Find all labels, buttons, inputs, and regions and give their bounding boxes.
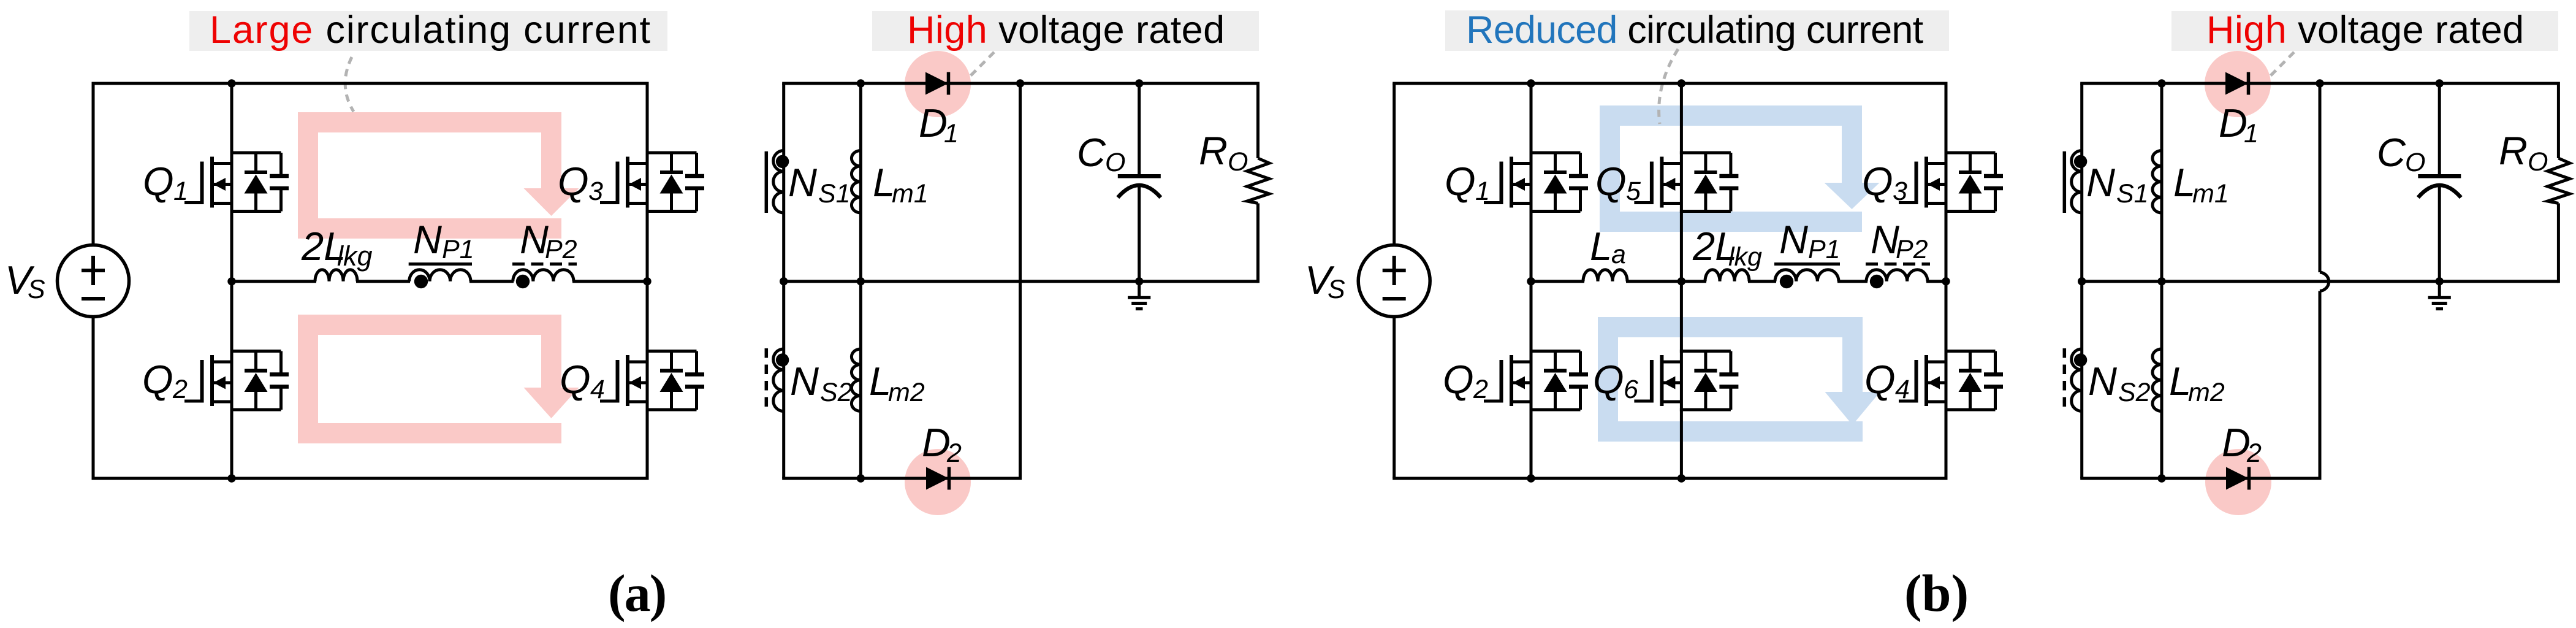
transistor Q1 (b) <box>1484 153 1588 212</box>
svg-text:NS2: NS2 <box>2088 359 2151 407</box>
svg-text:Q3: Q3 <box>558 159 603 206</box>
wire left bridge leg (b) <box>1530 83 1533 478</box>
transistor Q2 (b) <box>1484 351 1588 410</box>
polarity dot NP2 (a) <box>516 275 530 288</box>
resistor RO (a) <box>1256 82 1260 159</box>
polarity dot NP1 (a) <box>414 275 428 288</box>
transistor Q5 <box>1634 153 1738 212</box>
transistor Q3 <box>600 153 704 212</box>
wire primary mid rail segment 4 (b) <box>1748 280 1776 283</box>
wire secondary winding leg (b) <box>2080 83 2083 478</box>
wire primary mid rail segment 6 (b) <box>1926 280 1946 283</box>
highlight circle on D1 (a) <box>905 51 971 117</box>
ground symbol (a) <box>1138 281 1141 297</box>
node: bottom rail - left leg junction (a) <box>227 474 235 482</box>
winding NS2 (a) <box>773 349 784 411</box>
svg-text:Reduced circulating current: Reduced circulating current <box>1466 9 1924 52</box>
inductor La (b) <box>1583 270 1627 281</box>
wire output rail vertical with crossover hop (b) <box>2319 83 2322 272</box>
svg-text:High voltage rated: High voltage rated <box>907 9 1225 52</box>
wire Lm leg (b) <box>2160 83 2164 478</box>
svg-text:Q1: Q1 <box>143 159 188 206</box>
wire secondary bottom rail (b) <box>2080 477 2320 480</box>
transformer core bar NS2 (a) dashed <box>765 348 769 409</box>
transistor Q2 <box>184 351 289 410</box>
circulating current loop upper (b) <box>1600 105 1880 232</box>
svg-text:High voltage rated: High voltage rated <box>2206 9 2525 52</box>
node: mid rail junctions (b) <box>1527 277 1535 285</box>
wire source rail upper (b) <box>1392 83 1396 246</box>
svg-text:NS2: NS2 <box>790 359 853 407</box>
wire top rail (a) primary <box>92 82 649 85</box>
winding NS2 (b) <box>2072 349 2082 411</box>
wire primary mid rail segment 4 (a) <box>572 280 647 283</box>
circulating current loop upper (a) <box>298 112 579 239</box>
wire secondary top rail (b) <box>2080 82 2558 85</box>
svg-text:NS1: NS1 <box>2086 160 2149 209</box>
winding NP2 (a) <box>513 270 574 281</box>
node: mid rail - left leg junction (a) <box>227 277 235 285</box>
wire source rail lower (b) <box>1392 316 1396 478</box>
svg-text:NP2: NP2 <box>1871 217 1928 264</box>
annotation leader to upper loop (b) <box>1659 49 1678 124</box>
wire right bridge leg (b) <box>1945 83 1948 478</box>
svg-text:Q3: Q3 <box>1862 159 1907 206</box>
polarity dot NS2 (b) <box>2074 353 2087 366</box>
resistor RO (b) <box>2557 82 2560 159</box>
node: bottom rail junctions (b) <box>1527 474 1535 482</box>
svg-text:(a): (a) <box>608 564 666 622</box>
annotation box: High voltage rated (b) <box>2171 11 2558 51</box>
polarity dot NS2 (a) <box>776 353 789 366</box>
polarity dot NS1 (a) <box>776 155 789 168</box>
voltage source VS (b) <box>1358 245 1430 317</box>
diode D1 (b) <box>2225 72 2248 95</box>
polarity dot NP1 (b) <box>1780 275 1793 288</box>
node: mid rail - right leg junction (a) <box>643 277 651 285</box>
wire primary mid rail segment 2 (a) <box>356 280 410 283</box>
svg-text:RO: RO <box>2499 128 2548 177</box>
svg-text:Large circulating current: Large circulating current <box>210 9 652 52</box>
wire source rail upper (a) <box>92 83 95 246</box>
circulating current loop lower (a) <box>298 315 579 443</box>
node: top rail - left leg junction (a) <box>227 79 235 87</box>
wire secondary winding leg (a) <box>782 83 785 478</box>
node: secondary bottom rail junction (b) <box>2157 474 2165 482</box>
wire middle bridge leg (b) <box>1680 83 1683 478</box>
svg-text:(b): (b) <box>1904 564 1969 622</box>
svg-text:Q5: Q5 <box>1595 159 1641 206</box>
svg-text:Q4: Q4 <box>560 357 605 404</box>
wire primary mid rail segment 3 (b) <box>1681 280 1706 283</box>
transformer core bar NS1 (a) solid <box>765 151 769 213</box>
annotation leader to D1 (a) <box>967 52 994 79</box>
inductor Lm2 (a) <box>851 349 861 412</box>
winding NP1 (b) <box>1775 270 1839 281</box>
svg-text:NP2: NP2 <box>520 217 577 264</box>
svg-text:Q2: Q2 <box>142 357 188 404</box>
svg-text:Q6: Q6 <box>1593 357 1638 404</box>
transformer core bar NS2 (b) dashed <box>2063 348 2067 409</box>
wire secondary top rail (a) <box>782 82 1258 85</box>
node: top rail junctions (b) <box>1527 79 1535 87</box>
svg-text:D2: D2 <box>2222 420 2262 468</box>
diode D2 (b) <box>2226 467 2249 490</box>
svg-text:NS1: NS1 <box>788 160 851 209</box>
winding NS1 (b) <box>2072 151 2082 213</box>
highlight circle on D1 (b) <box>2205 51 2271 117</box>
capacitor CO (a) <box>1138 83 1141 176</box>
ground symbol (b) <box>2438 281 2441 297</box>
svg-text:CO: CO <box>1077 130 1125 177</box>
wire bottom rail (b) primary <box>1392 477 1947 480</box>
svg-text:D2: D2 <box>922 420 962 468</box>
transistor Q6 <box>1634 351 1738 410</box>
wire bottom rail (a) primary <box>92 477 649 480</box>
wire left bridge leg (a) <box>230 83 234 478</box>
svg-text:Lm1: Lm1 <box>2173 160 2229 209</box>
inductor Lm2 (b) <box>2152 349 2162 412</box>
node: secondary mid rail junctions (b) <box>2078 277 2086 285</box>
wire secondary mid rail (b) <box>2080 280 2558 283</box>
wire secondary bottom rail (a) <box>782 477 1020 480</box>
winding NP2 (b) <box>1866 270 1928 281</box>
svg-text:Q1: Q1 <box>1445 159 1490 206</box>
wire source rail lower (a) <box>92 316 95 478</box>
wire top rail (b) primary <box>1392 82 1947 85</box>
polarity dot NS1 (b) <box>2074 155 2087 168</box>
highlight circle on D2 (b) <box>2205 449 2271 515</box>
svg-text:Lm2: Lm2 <box>869 359 925 407</box>
wire secondary mid rail (a) <box>782 280 1258 283</box>
svg-text:VS: VS <box>1305 258 1345 304</box>
capacitor CO (b) <box>2438 83 2441 176</box>
inductor 2Llkg (a) <box>315 270 357 281</box>
transformer core bar NS1 (b) solid <box>2063 151 2067 213</box>
svg-text:Q2: Q2 <box>1443 357 1488 404</box>
svg-text:CO: CO <box>2377 130 2425 177</box>
transistor Q4 <box>600 351 704 410</box>
annotation box: Large circulating current (a) <box>189 11 667 51</box>
wire right bridge leg (a) <box>646 83 649 478</box>
annotation leader to D1 (b) <box>2267 52 2294 79</box>
wire output rail vertical (a) <box>1019 83 1022 480</box>
polarity dot NP2 (b) <box>1870 275 1883 288</box>
node: secondary top rail junctions (a) <box>857 79 865 87</box>
svg-text:RO: RO <box>1199 128 1248 177</box>
diode D1 (a) <box>925 72 948 95</box>
inductor Lm1 (b) <box>2152 151 2162 213</box>
circulating current loop lower (b) <box>1598 317 1880 442</box>
annotation leader to upper loop (a) <box>345 57 354 112</box>
svg-text:Q4: Q4 <box>1864 357 1910 404</box>
node: secondary top rail junctions (b) <box>2157 79 2165 87</box>
annotation box: Reduced circulating current (b) <box>1445 10 1949 51</box>
voltage source VS (a) <box>58 245 129 317</box>
annotation box: High voltage rated (a) <box>872 11 1259 51</box>
wire primary mid rail segment 3 (a) <box>469 280 514 283</box>
wire primary mid rail segment 5 (b) <box>1837 280 1867 283</box>
wire primary mid rail segment 1 (a) <box>232 280 316 283</box>
node: secondary mid rail junctions (a) <box>780 277 788 285</box>
svg-text:VS: VS <box>5 258 45 304</box>
transistor Q4 (b) <box>1899 351 2003 410</box>
svg-text:Lm1: Lm1 <box>873 160 929 209</box>
transistor Q1 <box>184 153 289 212</box>
wire primary mid rail segment 2 (b) <box>1626 280 1681 283</box>
node: secondary bottom rail junction (a) <box>857 474 865 482</box>
diode D2 (a) <box>926 467 949 490</box>
inductor Lm1 (a) <box>851 151 861 213</box>
wire Lm leg (a) <box>859 83 862 478</box>
wire primary mid rail segment 1 (b) <box>1531 280 1584 283</box>
svg-text:Lm2: Lm2 <box>2169 359 2225 407</box>
highlight circle on D2 (a) <box>905 449 971 515</box>
winding NP1 (a) <box>409 270 471 281</box>
winding NS1 (a) <box>773 151 784 213</box>
inductor 2Llkg (b) <box>1705 270 1749 281</box>
transistor Q3 (b) <box>1899 153 2003 212</box>
